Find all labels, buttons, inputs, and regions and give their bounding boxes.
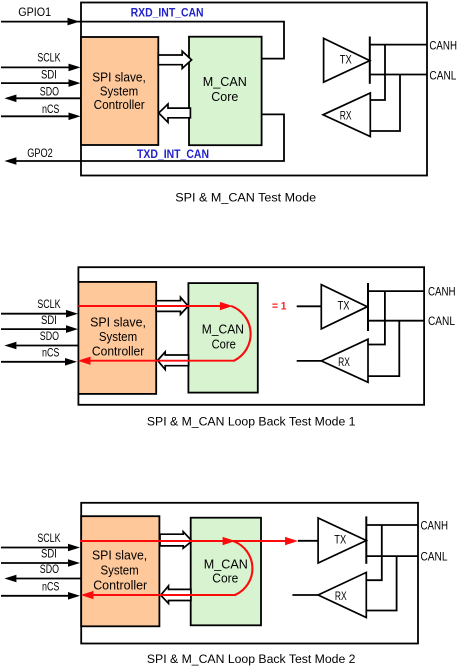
svg-text:CANL: CANL	[429, 70, 457, 82]
svg-text:M_CAN: M_CAN	[202, 322, 244, 337]
bus arrow SPI to MCAN (hollow, right)	[158, 51, 191, 68]
svg-text:nCS: nCS	[42, 104, 60, 116]
svg-text:Core: Core	[212, 571, 238, 586]
svg-text:RX: RX	[338, 357, 350, 369]
SPI slave System Controller block U9	[81, 516, 159, 626]
svg-text:M_CAN: M_CAN	[204, 557, 248, 572]
wire SDO	[15, 345, 78, 347]
outer device box D2	[78, 267, 424, 405]
wire SDO	[15, 578, 81, 580]
wire SDO	[15, 97, 81, 99]
red u-turn curve	[234, 541, 253, 595]
svg-text:System: System	[99, 329, 137, 344]
wire CANH to RX	[368, 291, 385, 344]
outer device box D3	[81, 503, 418, 644]
arrowhead SDO out	[4, 95, 16, 103]
arrowhead SDI	[66, 325, 78, 333]
red loop-back path in	[80, 540, 292, 542]
svg-text:GPO2: GPO2	[27, 148, 53, 160]
wire CANL to RX	[368, 321, 399, 376]
M_CAN Core block U2	[189, 37, 262, 146]
svg-text:TX: TX	[338, 301, 350, 313]
svg-text:CANL: CANL	[421, 551, 449, 563]
wire CANH	[368, 290, 424, 292]
red loop-back path out	[92, 594, 236, 596]
arrowhead SDO out	[4, 342, 16, 350]
TX driver U11	[318, 518, 366, 563]
svg-text:Core: Core	[211, 89, 238, 104]
wire RX output	[292, 594, 318, 596]
wire to TX	[298, 540, 318, 542]
wire CANH to RX	[366, 525, 382, 580]
svg-text:SPI slave,: SPI slave,	[90, 314, 146, 329]
wire SDI	[1, 82, 70, 84]
bus arrow MCAN to SPI (hollow, left)	[159, 104, 191, 122]
SPI slave System Controller block U1	[81, 37, 158, 145]
arrowhead SDI	[68, 559, 80, 567]
wire SCLK	[1, 313, 68, 315]
red arrowhead out of box	[81, 591, 94, 599]
wire to TX	[297, 305, 322, 307]
svg-text:SPI & M_CAN Loop Back Test Mod: SPI & M_CAN Loop Back Test Mode 1	[147, 414, 356, 428]
svg-text:CANH: CANH	[428, 287, 456, 299]
svg-text:SCLK: SCLK	[37, 299, 60, 311]
svg-text:SDO: SDO	[40, 86, 59, 98]
TX driver U3	[324, 38, 370, 82]
SPI slave System Controller block U5	[78, 282, 156, 394]
bus bar TX output	[365, 516, 367, 563]
svg-text:Controller: Controller	[93, 577, 148, 592]
wire nCS	[1, 595, 68, 597]
svg-text:System: System	[100, 83, 138, 98]
svg-text:RX: RX	[335, 591, 347, 603]
arrowhead SCLK	[68, 544, 80, 552]
svg-text:nCS: nCS	[42, 581, 60, 593]
svg-text:Controller: Controller	[92, 343, 145, 358]
bus arrow MCAN to SPI (hollow, left)	[161, 586, 191, 604]
svg-text:SCLK: SCLK	[37, 52, 60, 64]
arrowhead SDI	[69, 79, 81, 87]
svg-text:RX: RX	[340, 111, 352, 123]
RX receiver U8	[321, 339, 368, 382]
wire CANL	[366, 555, 418, 557]
svg-text:RXD_INT_CAN: RXD_INT_CAN	[131, 5, 204, 19]
wire RX output	[297, 360, 322, 362]
wire CANH to RX	[370, 45, 385, 100]
svg-text:Core: Core	[212, 336, 236, 351]
wire CANL to RX	[366, 556, 396, 610]
svg-text:SDO: SDO	[40, 331, 59, 343]
arrowhead GPO2 out	[4, 157, 16, 165]
wire CANL to RX	[370, 75, 400, 132]
svg-text:nCS: nCS	[42, 347, 60, 359]
wire SCLK	[1, 547, 68, 549]
arrowhead nCS	[69, 113, 81, 121]
svg-text:Controller: Controller	[94, 97, 146, 112]
red loop-back path out	[89, 360, 235, 362]
red arrowhead into MCAN	[220, 302, 233, 310]
svg-text:SPI slave,: SPI slave,	[92, 548, 147, 563]
TX driver U7	[321, 285, 367, 329]
bus arrow SPI to MCAN (hollow, right)	[160, 532, 192, 549]
bus bar TX output	[369, 37, 371, 84]
arrowhead GPIO1 into box	[68, 18, 80, 26]
wire GPIO1/RXD_INT_CAN	[1, 22, 284, 59]
arrowhead nCS	[65, 358, 77, 366]
svg-text:SDO: SDO	[40, 564, 59, 576]
M_CAN Core block U10	[191, 518, 261, 626]
bus arrow MCAN to SPI (hollow, left)	[158, 352, 189, 370]
svg-text:SDI: SDI	[41, 315, 57, 327]
RX receiver U4	[323, 93, 370, 137]
svg-text:CANL: CANL	[428, 316, 456, 328]
wire CANH	[370, 44, 427, 46]
svg-text:CANH: CANH	[421, 520, 449, 532]
red arrowhead inside MCAN	[223, 537, 236, 545]
red arrowhead out of box	[78, 357, 91, 365]
wire nCS	[1, 115, 70, 117]
svg-text:SPI & M_CAN Loop Back Test Mod: SPI & M_CAN Loop Back Test Mode 2	[147, 652, 356, 666]
svg-text:= 1: = 1	[272, 301, 286, 313]
wire CANH	[366, 524, 418, 526]
svg-text:M_CAN: M_CAN	[203, 74, 247, 89]
arrowhead SDO out	[4, 575, 16, 583]
red loop-back path in	[78, 305, 226, 307]
svg-text:GPIO1: GPIO1	[18, 7, 51, 19]
red arrowhead toward TX	[285, 537, 298, 545]
arrowhead SCLK	[69, 64, 81, 72]
outer device box D1	[81, 3, 427, 176]
svg-text:TX: TX	[340, 55, 352, 67]
svg-text:SDI: SDI	[41, 549, 57, 561]
svg-text:System: System	[100, 562, 138, 577]
arrowhead SCLK	[66, 310, 78, 318]
bus bar TX output	[367, 283, 369, 331]
arrowhead nCS	[68, 592, 80, 600]
wire TXD_INT_CAN/GPO2	[15, 114, 284, 161]
wire CANL	[368, 320, 424, 322]
svg-text:CANH: CANH	[429, 40, 457, 52]
wire SDI	[1, 562, 68, 564]
RX receiver U12	[318, 572, 366, 617]
wire nCS	[1, 361, 65, 363]
wire SCLK	[1, 66, 70, 68]
svg-text:SDI: SDI	[41, 70, 57, 82]
svg-text:TX: TX	[334, 535, 346, 547]
wire SDI	[1, 328, 68, 330]
svg-text:TXD_INT_CAN: TXD_INT_CAN	[137, 147, 209, 161]
wire CANL	[370, 74, 427, 76]
svg-text:SPI & M_CAN Test Mode: SPI & M_CAN Test Mode	[175, 190, 316, 204]
M_CAN Core block U6	[188, 283, 257, 393]
svg-text:SCLK: SCLK	[37, 533, 60, 545]
red u-turn curve	[232, 306, 251, 361]
svg-text:SPI slave,: SPI slave,	[92, 69, 146, 84]
bus arrow SPI to MCAN (hollow, right)	[156, 297, 188, 314]
